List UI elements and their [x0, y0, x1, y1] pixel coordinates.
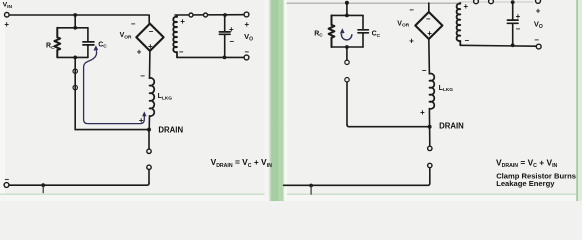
- svg-text:+: +: [427, 29, 432, 38]
- svg-text:−: −: [4, 175, 9, 184]
- svg-text:−: −: [131, 19, 136, 28]
- svg-text:+: +: [516, 12, 521, 21]
- svg-text:+: +: [139, 116, 144, 125]
- svg-text:−: −: [516, 24, 521, 33]
- svg-text:−: −: [422, 66, 427, 75]
- svg-text:−: −: [464, 36, 469, 45]
- svg-text:DRAIN: DRAIN: [439, 122, 464, 131]
- svg-text:+: +: [137, 47, 142, 56]
- svg-text:−: −: [140, 71, 145, 80]
- svg-text:+: +: [420, 108, 425, 117]
- svg-text:Leakage Energy: Leakage Energy: [496, 179, 555, 188]
- svg-text:+: +: [409, 36, 414, 45]
- svg-text:−: −: [179, 48, 184, 57]
- svg-text:+: +: [4, 20, 9, 29]
- svg-text:−: −: [149, 27, 154, 36]
- svg-text:−: −: [426, 15, 431, 24]
- svg-text:+: +: [536, 7, 541, 16]
- svg-text:−: −: [229, 37, 234, 46]
- svg-text:−: −: [409, 5, 414, 14]
- svg-text:+: +: [148, 42, 153, 51]
- svg-text:−: −: [534, 36, 539, 45]
- svg-text:−: −: [244, 47, 249, 56]
- svg-text:DRAIN: DRAIN: [158, 126, 183, 135]
- svg-text:+: +: [244, 20, 249, 29]
- svg-text:+: +: [180, 17, 185, 26]
- svg-text:+: +: [229, 25, 234, 34]
- svg-text:+: +: [463, 2, 468, 11]
